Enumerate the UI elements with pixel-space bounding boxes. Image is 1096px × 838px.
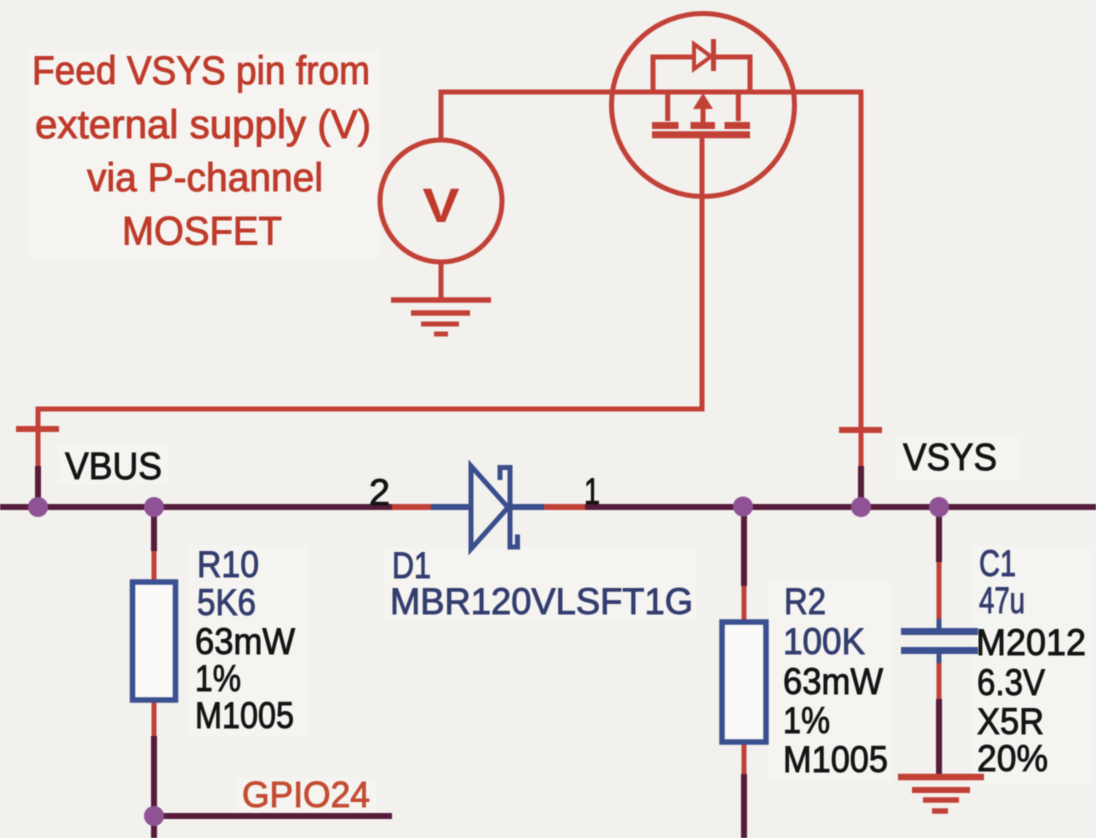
svg-text:1%: 1% (783, 700, 830, 741)
svg-text:GPIO24: GPIO24 (242, 774, 370, 815)
svg-text:M1005: M1005 (195, 695, 294, 736)
svg-text:R10: R10 (197, 544, 259, 585)
svg-text:X5R: X5R (977, 701, 1044, 742)
svg-text:MOSFET: MOSFET (122, 210, 282, 254)
svg-text:63mW: 63mW (195, 621, 295, 662)
svg-text:V: V (423, 180, 460, 233)
svg-text:2: 2 (369, 472, 390, 513)
svg-text:R2: R2 (784, 581, 826, 622)
svg-text:5K6: 5K6 (197, 582, 256, 623)
svg-text:C1: C1 (979, 543, 1016, 584)
svg-text:via P-channel: via P-channel (87, 156, 323, 200)
svg-text:1%: 1% (195, 658, 241, 699)
svg-text:Feed VSYS pin from: Feed VSYS pin from (32, 49, 370, 93)
svg-text:VSYS: VSYS (903, 437, 997, 479)
svg-text:M1005: M1005 (783, 739, 888, 780)
svg-text:1: 1 (584, 471, 600, 512)
svg-text:6.3V: 6.3V (977, 662, 1045, 703)
svg-text:MBR120VLSFT1G: MBR120VLSFT1G (390, 581, 693, 622)
svg-text:63mW: 63mW (783, 661, 883, 702)
svg-text:20%: 20% (977, 738, 1048, 779)
svg-text:100K: 100K (783, 621, 865, 662)
svg-text:M2012: M2012 (976, 622, 1086, 663)
svg-text:external supply (V): external supply (V) (35, 103, 371, 147)
svg-text:VBUS: VBUS (65, 446, 162, 488)
svg-text:D1: D1 (392, 545, 431, 586)
svg-text:47u: 47u (979, 580, 1025, 621)
